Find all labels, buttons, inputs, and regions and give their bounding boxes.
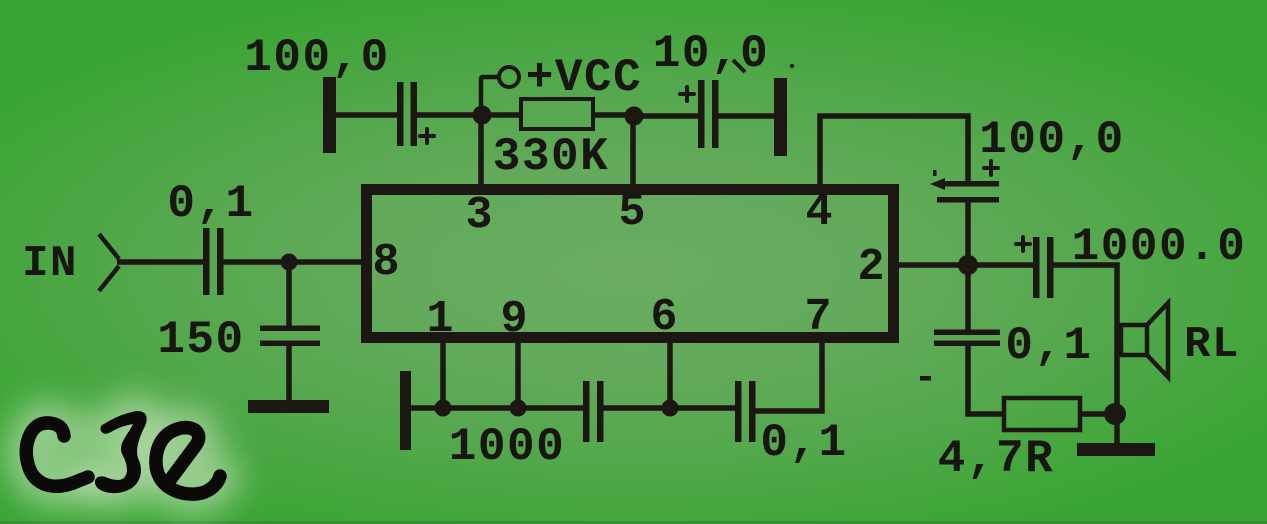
node F junction pin1 <box>435 400 452 417</box>
svg-text:1000: 1000 <box>449 421 565 473</box>
capacitor C9 plates <box>735 381 742 442</box>
svg-text:RL: RL <box>1184 320 1240 370</box>
node D junction <box>958 255 978 275</box>
wire node B up to VCC circle <box>481 77 498 110</box>
wire pin 4 up and over to C5 <box>820 116 968 190</box>
svg-text:150: 150 <box>157 314 244 366</box>
wire R1 to node C <box>593 112 628 118</box>
speaker RL body <box>1121 325 1147 355</box>
capacitor C2 supply bar <box>774 78 787 156</box>
resistor R2 4,7R body <box>1004 398 1080 430</box>
wire pin 9 down <box>515 340 521 402</box>
input chevron <box>99 234 119 291</box>
svg-text:100,0: 100,0 <box>979 114 1125 166</box>
node A junction <box>281 254 298 271</box>
wire C7 down and right to R2 <box>968 346 1004 414</box>
svg-text:0,1: 0,1 <box>1005 320 1092 372</box>
wire C1 bar to C1 <box>336 112 397 118</box>
wire pin 1 down <box>440 340 446 402</box>
wire IN to C3 <box>117 259 203 265</box>
label C2 comma tick <box>733 60 745 72</box>
node C junction <box>625 107 644 126</box>
svg-text:3: 3 <box>465 190 492 241</box>
capacitor C1 plates <box>397 82 404 146</box>
svg-text:1000.0: 1000.0 <box>1072 221 1247 273</box>
wire node C to C2 <box>640 113 698 119</box>
bottom supply bar GND3 <box>400 371 411 450</box>
svg-text:4: 4 <box>805 187 832 238</box>
svg-text:0,1: 0,1 <box>760 417 847 469</box>
ground bar GND2 <box>1077 443 1155 456</box>
cse logo letter c <box>26 423 88 486</box>
capacitor C8 plates <box>583 381 590 442</box>
glow behind cse logo <box>26 415 220 495</box>
wire C2 to right bar <box>718 113 774 119</box>
wire node C down to pin 5 <box>630 124 636 190</box>
svg-text:100,0: 100,0 <box>244 32 390 84</box>
capacitor C5 arrow tip <box>930 178 945 190</box>
ground bar GND1 <box>248 400 329 413</box>
capacitor C2 plates <box>698 80 705 148</box>
svg-text:0,1: 0,1 <box>167 178 254 230</box>
cse logo letter s <box>95 411 147 493</box>
wire node D to C6 <box>976 262 1033 268</box>
svg-text:7: 7 <box>804 292 831 343</box>
wire C3 to node A to IC pin 8 <box>223 259 361 265</box>
wire C4 to ground <box>286 346 292 402</box>
wire node D down to C7 <box>965 273 971 330</box>
plus sign of C1 <box>420 129 434 143</box>
plus sign of C6 <box>1016 237 1030 251</box>
capacitor C5 plates <box>938 181 999 187</box>
plus sign of C5 <box>984 161 998 175</box>
speck near 10,0 <box>790 64 794 68</box>
svg-text:IN: IN <box>22 239 78 289</box>
capacitor C4 plates <box>260 326 320 332</box>
cse logo letter e <box>156 428 220 495</box>
svg-text:5: 5 <box>618 187 645 238</box>
wire R2 to node E <box>1080 411 1106 417</box>
capacitor C7 plates <box>934 330 1000 336</box>
wire C1 to node B <box>417 112 476 118</box>
speck right of IC top <box>933 170 937 176</box>
wire bottom bar to C8 <box>411 405 583 411</box>
node G junction pin9 <box>510 400 527 417</box>
svg-text:10,0: 10,0 <box>653 28 769 80</box>
speck dash left of 4,7R <box>920 376 931 381</box>
node H junction pin6 <box>662 400 679 417</box>
svg-text:6: 6 <box>650 292 677 343</box>
svg-text:4,7R: 4,7R <box>938 433 1054 485</box>
capacitor C1 supply bar <box>323 77 336 153</box>
wire C6 to speaker line down to node E <box>1053 265 1117 406</box>
svg-text:2: 2 <box>857 242 884 293</box>
plus sign of C2 <box>680 87 694 101</box>
wire node A down to C4 <box>286 268 292 326</box>
VCC terminal circle <box>499 67 519 87</box>
svg-text:9: 9 <box>500 294 527 345</box>
bottom edge dark strip <box>0 521 1267 524</box>
resistor R1 330K body <box>521 99 593 129</box>
wire C8 to node H <box>603 405 735 411</box>
wire node E down to ground <box>1114 422 1120 444</box>
svg-text:1: 1 <box>426 294 453 345</box>
capacitor C3 plates <box>203 228 210 295</box>
wire pin 6 down <box>667 340 673 402</box>
capacitor C6 plates <box>1033 237 1040 298</box>
wire C9 to pin 7 <box>755 340 822 411</box>
svg-text:+VCC: +VCC <box>526 52 642 104</box>
op-amp IC U1 <box>367 190 894 338</box>
svg-text:330K: 330K <box>493 131 609 183</box>
wire IC pin 2 to node D <box>899 262 960 268</box>
svg-text:8: 8 <box>372 237 399 288</box>
wire C5 down to node D <box>965 202 971 258</box>
node E junction <box>1104 403 1126 425</box>
speaker RL cone <box>1147 303 1168 377</box>
wire node B down to pin 3 <box>478 122 484 190</box>
node B junction <box>473 106 492 125</box>
wire node B to R1 <box>488 112 521 118</box>
